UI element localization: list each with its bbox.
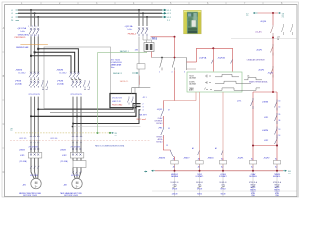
svg-text:13: 13 — [279, 101, 281, 103]
svg-text:(22-32A): (22-32A) — [20, 160, 27, 163]
switch QS row — [160, 58, 175, 71]
bus L3 — [18, 16, 162, 18]
bus source labels left — [11, 10, 14, 22]
breaker QF1 — [29, 28, 39, 37]
svg-text:SAYFA 2.1: SAYFA 2.1 — [120, 50, 129, 53]
svg-text:-KM1D: -KM1D — [207, 157, 214, 159]
svg-text:1/L1 3/L2: 1/L1 3/L2 — [18, 72, 25, 74]
svg-text:-X1 1: -X1 1 — [143, 97, 147, 99]
wire loop phase1 — [38, 49, 78, 73]
frame column ticks top — [41, 2, 263, 5]
svg-text:-KQF2: -KQF2 — [268, 73, 274, 75]
svg-text:-QF2 4A: -QF2 4A — [125, 25, 133, 28]
zone divider line — [231, 38, 297, 40]
svg-text:2T1 4T2 6T3: 2T1 4T2 6T3 — [29, 146, 39, 148]
svg-text:(24-32A): (24-32A) — [15, 82, 22, 85]
svg-text:U1 V1 W1: U1 V1 W1 — [71, 175, 79, 177]
svg-text:-KQF2: -KQF2 — [258, 70, 265, 72]
svg-text:-KQF1: -KQF1 — [157, 109, 163, 111]
bottom rail N — [155, 170, 283, 172]
svg-text:MOTORU 5.5kW: MOTORU 5.5kW — [64, 195, 78, 197]
svg-text:-QF1 25A: -QF1 25A — [17, 27, 27, 30]
node below contact — [272, 37, 274, 39]
wire QF1 drops — [31, 10, 38, 27]
svg-text:MOTORU 7.5kW: MOTORU 7.5kW — [23, 195, 37, 197]
X1 pin labels — [143, 97, 147, 111]
svg-text:-FR2: -FR2 — [264, 140, 268, 142]
wire loop phase3 — [31, 56, 71, 73]
svg-text:14: 14 — [279, 135, 281, 137]
wire FR1 to M1 — [31, 158, 38, 179]
bus L1 — [18, 9, 162, 11]
svg-text:-KM1M: -KM1M — [262, 101, 269, 103]
red corner to coils 4/5 — [272, 91, 274, 93]
svg-text:2: 2 — [143, 103, 144, 105]
svg-text:L2: L2 — [11, 13, 13, 15]
svg-text:YILDIZ: YILDIZ — [197, 174, 202, 176]
box B bold starter — [110, 94, 136, 108]
trip contact cluster FR1 — [41, 80, 47, 89]
overload FR1 — [28, 153, 42, 159]
trip contact cluster FR2 — [83, 80, 89, 89]
control mid routing — [174, 71, 176, 101]
svg-text:I>I>I>: I>I>I> — [20, 30, 25, 33]
svg-text:-KQF1: -KQF1 — [256, 50, 263, 52]
contactor KM2M — [69, 72, 79, 79]
svg-text:ETR4: ETR4 — [251, 193, 255, 195]
wire control entry — [258, 12, 279, 14]
relay header red box — [197, 48, 233, 71]
svg-text:-FR2M: -FR2M — [57, 81, 63, 83]
svg-text:24VDC: 24VDC — [274, 187, 280, 189]
svg-text:-KM1 21 31: -KM1 21 31 — [112, 101, 121, 103]
svg-text:-X1 1 3 5: -X1 1 3 5 — [19, 138, 26, 140]
svg-text:XPOLE: XPOLE — [220, 188, 225, 190]
svg-text:TERMIK: TERMIK — [274, 174, 281, 176]
svg-text:PKZ2/ZM-25: PKZ2/ZM-25 — [15, 37, 26, 39]
svg-text:6: 6 — [35, 35, 36, 37]
svg-text:96: 96 — [279, 120, 281, 122]
wire col2 lower — [73, 97, 81, 137]
blades above coils 2/3 — [198, 151, 223, 156]
svg-text:-KM2M: -KM2M — [56, 70, 63, 72]
svg-text:-KQF1: -KQF1 — [237, 157, 244, 159]
wire col1 lower — [31, 97, 38, 137]
drawing frame inner — [5, 5, 297, 197]
svg-text:10sn: 10sn — [111, 67, 115, 69]
motor M1 — [31, 178, 41, 188]
svg-text:UCGEN: UCGEN — [189, 82, 194, 84]
svg-text:2T1 4T2 6T3: 2T1 4T2 6T3 — [71, 146, 81, 148]
svg-text:MERKEZ FAN: MERKEZ FAN — [16, 46, 29, 49]
svg-text:CIHAZLAR DEVREDE: CIHAZLAR DEVREDE — [247, 59, 266, 62]
svg-text:1: 1 — [28, 26, 29, 28]
thermal glyphs on wires — [30, 148, 81, 150]
breaker QF2 — [137, 27, 148, 36]
dashed zone line — [10, 140, 150, 142]
node L2 tap QF1 — [34, 12, 36, 14]
contactor KM1M — [29, 72, 39, 79]
softstart box2 — [73, 161, 86, 168]
wire loop phase2 — [35, 52, 75, 72]
svg-text:ETR4: ETR4 — [275, 193, 279, 195]
svg-text:UCGEN: UCGEN — [220, 174, 227, 176]
svg-text:3: 3 — [32, 26, 33, 28]
svg-text:SAYFA 2.1: SAYFA 2.1 — [120, 80, 129, 83]
svg-text:22DILM: 22DILM — [172, 193, 178, 195]
svg-text:M: M — [76, 181, 79, 185]
node L3 tap QF1 — [37, 16, 39, 18]
legend box — [187, 72, 242, 92]
cable marker W1 — [20, 44, 48, 46]
overload FR2M — [71, 81, 81, 88]
svg-text:2/T1 4/T2 6/T3: 2/T1 4/T2 6/T3 — [71, 94, 82, 96]
svg-text:-FR1: -FR1 — [158, 128, 162, 130]
svg-text:1/L1 3/L2: 1/L1 3/L2 — [59, 72, 66, 74]
aux contacts — [282, 24, 293, 35]
svg-text:-KM1Y: -KM1Y — [183, 157, 190, 159]
bridge coils 4-5 — [253, 145, 277, 147]
svg-text:-KQF2: -KQF2 — [263, 157, 270, 159]
second comb rows — [30, 142, 82, 144]
red secondary feed — [151, 52, 153, 58]
svg-text:7.1: 7.1 — [282, 17, 285, 19]
svg-text:(22-32A): (22-32A) — [61, 160, 68, 163]
svg-text:5: 5 — [35, 26, 36, 28]
cable bundle to X1 pins — [38, 104, 140, 110]
yellow device photo — [184, 10, 202, 34]
node QF2 taps — [138, 9, 140, 11]
svg-text:TERMIK: TERMIK — [156, 137, 163, 139]
svg-text:9DILM: 9DILM — [221, 193, 226, 195]
svg-text:67: 67 — [168, 110, 170, 112]
contact K1 — [272, 13, 274, 25]
coil KM1M — [158, 157, 178, 171]
svg-text:L1: L1 — [11, 10, 13, 12]
svg-text:24VDC: 24VDC — [250, 187, 256, 189]
svg-text:14s: 14s — [247, 76, 250, 78]
svg-text:PKZM0-4: PKZM0-4 — [128, 34, 136, 36]
pin labels above coils — [166, 145, 217, 150]
svg-text:DILM12-10: DILM12-10 — [171, 182, 179, 184]
wire FR2 to M2 — [73, 158, 81, 179]
svg-text:-FR1M: -FR1M — [15, 81, 21, 83]
teal arrow mid — [144, 171, 147, 173]
wire thin pe — [73, 126, 141, 128]
svg-text:(14-A7): (14-A7) — [256, 31, 262, 34]
svg-text:YILDIZ: YILDIZ — [189, 76, 194, 78]
svg-text:(24-32A): (24-32A) — [57, 82, 64, 85]
overload FR1M — [29, 81, 39, 88]
svg-text:-KM2M: -KM2M — [60, 149, 66, 151]
frame row ticks left — [2, 52, 5, 148]
svg-text:MERKEZ: MERKEZ — [171, 174, 178, 176]
svg-text:M: M — [35, 181, 38, 185]
svg-text:I>I>I>: I>I>I> — [128, 28, 133, 31]
wire to FR col1 — [31, 140, 38, 153]
bus L2 — [18, 12, 162, 14]
svg-text:KABIN TERMIK ARIZA: KABIN TERMIK ARIZA — [249, 81, 268, 84]
svg-text:13: 13 — [279, 129, 281, 131]
below-rail stacks — [175, 172, 278, 197]
svg-text:XPOLE: XPOLE — [197, 188, 202, 190]
svg-text:95: 95 — [279, 114, 281, 116]
svg-text:C: C — [3, 123, 5, 126]
contacts on col 277 — [275, 100, 278, 147]
drawing frame outer — [2, 2, 299, 197]
coil KQF1 — [237, 157, 256, 171]
svg-text:-KM1M: -KM1M — [158, 157, 165, 159]
svg-text:-KM1M: -KM1M — [15, 70, 22, 72]
svg-text:3X2.5 mm2: 3X2.5 mm2 — [136, 119, 146, 121]
wire mid col2 — [71, 79, 81, 80]
svg-text:DEVREDE: DEVREDE — [155, 120, 163, 122]
svg-text:95: 95 — [168, 128, 170, 130]
coil KQF2 — [263, 157, 280, 171]
node L1 tap QF1 — [30, 9, 32, 11]
svg-text:9DILM: 9DILM — [197, 193, 202, 195]
svg-text:13: 13 — [166, 145, 168, 147]
svg-text:D: D — [3, 171, 5, 174]
svg-text:-KQF2A: -KQF2A — [218, 56, 226, 59]
wire right vertical — [272, 37, 274, 93]
transformer TR1 — [143, 36, 152, 43]
coil KM1Y — [183, 157, 203, 171]
svg-text:4: 4 — [32, 35, 33, 37]
svg-text:DEVREDE: DEVREDE — [249, 176, 257, 178]
bus right arrows + labels — [162, 9, 166, 18]
svg-text:-KM2M: -KM2M — [262, 130, 269, 132]
timer relay block — [111, 60, 123, 69]
svg-text:-KQF1A: -KQF1A — [199, 56, 207, 59]
svg-text:XPOLE: XPOLE — [172, 188, 177, 190]
svg-text:4: 4 — [143, 110, 144, 112]
svg-text:SAYFA 2.1: SAYFA 2.1 — [113, 72, 122, 75]
motor M2 — [72, 178, 82, 188]
wire below QF1 — [31, 37, 38, 73]
svg-text:-X1 2 4 6: -X1 2 4 6 — [50, 138, 57, 140]
svg-text:28: 28 — [277, 39, 279, 41]
svg-text:2/T1 4/T2 6/T3: 2/T1 4/T2 6/T3 — [29, 94, 40, 96]
wire mid col1 — [31, 79, 38, 80]
svg-text:3: 3 — [143, 107, 144, 109]
svg-text:PANO ICI KLEMENSLERDEN SONRA: PANO ICI KLEMENSLERDEN SONRA — [95, 144, 125, 147]
contacts on col 163 — [161, 109, 164, 139]
device box A — [44, 47, 111, 109]
svg-text:-KM1M: -KM1M — [19, 149, 25, 151]
verticals to coils 2/3 — [199, 92, 201, 158]
svg-text:-W1 NYY: -W1 NYY — [139, 115, 148, 117]
coil KM1D — [207, 157, 226, 171]
green secondary wire — [98, 52, 147, 133]
svg-text:DILM9-10: DILM9-10 — [220, 182, 227, 184]
svg-text:DILM9-01: DILM9-01 — [196, 182, 203, 184]
overload FR2 — [70, 153, 84, 159]
svg-text:2T1 4T2 6T3: 2T1 4T2 6T3 — [112, 97, 122, 99]
svg-text:-X2: -X2 — [277, 37, 280, 39]
svg-text:-FR1: -FR1 — [264, 117, 268, 119]
svg-text:U1 V1 W1: U1 V1 W1 — [30, 175, 38, 177]
svg-text:PKZM CIHAZ: PKZM CIHAZ — [112, 104, 122, 107]
svg-text:14: 14 — [279, 107, 281, 109]
svg-text:L3: L3 — [11, 17, 13, 19]
svg-text:GENEL BES.: GENEL BES. — [18, 34, 29, 36]
wire boxB feeds — [132, 37, 139, 94]
svg-text:-KQF4: -KQF4 — [260, 21, 267, 23]
wire QF2 drops — [139, 10, 147, 26]
control feed from QF2 — [151, 36, 175, 38]
